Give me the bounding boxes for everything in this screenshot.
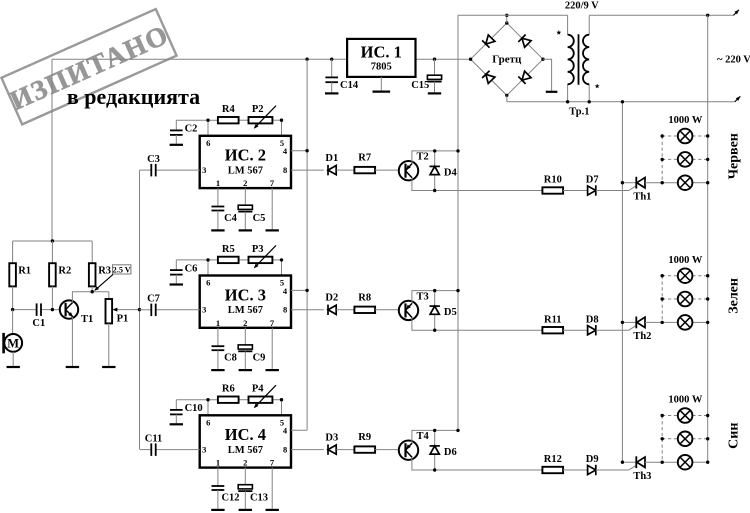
resistor R8 [354,307,375,313]
wire lamp rail vertical [707,15,709,462]
wire pin2 stub block 2 [244,188,246,205]
polarity star secondary [595,84,600,89]
ground microphone [7,366,20,368]
tone decoder U ИС.4 LM 567 [200,415,291,467]
wire collector T3 [412,291,458,303]
svg-text:в редакцията: в редакцията [67,84,200,109]
ground pin7 block 2 [266,229,279,231]
svg-text:T3: T3 [416,291,428,302]
wire mains top line right segment [589,14,733,16]
svg-text:3: 3 [202,165,206,175]
svg-text:ИС. 2: ИС. 2 [225,146,266,165]
wire timing line block 3 [176,259,218,261]
resistor R6 [218,397,239,403]
resistor R10 [542,187,563,193]
wire gate Th1 [596,186,636,191]
svg-text:220/9 V: 220/9 V [565,1,599,12]
svg-text:LM 567: LM 567 [228,305,263,316]
svg-text:6: 6 [206,278,210,288]
svg-text:T4: T4 [416,431,429,442]
wire pin6 stub block 3 [207,260,209,276]
svg-text:R9: R9 [358,432,371,443]
capacitor C12 [212,486,225,509]
wire pin7 stub block 3 [271,328,273,369]
node pin5 junction block 3 [280,258,283,261]
svg-text:2: 2 [243,458,247,468]
svg-text:C9: C9 [253,353,266,364]
lamp L3 channel 1 row 3 [678,175,693,190]
wire bridge bottom to neutral line [506,95,508,101]
node pin4 junction block 3 [305,289,308,292]
svg-text:8: 8 [283,305,287,315]
label 2.5 V callout [93,265,131,293]
svg-text:R5: R5 [222,244,235,255]
svg-text:1000 W: 1000 W [668,395,702,406]
capacitor C5 electrolytic [238,205,252,229]
node lamp rail top [706,14,709,17]
wire pin3 block 4 [140,449,152,451]
node bridge top on mains line [505,14,508,17]
lamp L5 channel 2 row 2 [678,292,693,307]
node dashed rail lamp L9 channel 3 row 3 [661,461,664,464]
svg-text:2: 2 [243,178,247,188]
resistor R1 [12,241,14,263]
capacitor C9 electrolytic [238,345,252,369]
capacitor C6 [170,260,183,284]
svg-text:3: 3 [202,445,206,455]
diode D2 [328,305,336,315]
ground C8 [211,369,224,371]
microphone M [4,310,22,366]
transformer Tr.1 [568,15,590,102]
wire emitter T4 [412,458,543,470]
node neutral rail top [621,100,624,103]
node lamp rail lamp L6 channel 2 row 3 [706,321,709,324]
resistor R2 [51,241,53,263]
node D6 top [433,429,436,432]
node pin6 junction block 3 [206,258,209,261]
svg-text:C4: C4 [224,213,238,224]
wire neutral rail vertical [621,102,623,462]
svg-text:1: 1 [216,458,220,468]
svg-text:R4: R4 [222,104,236,115]
svg-text:C11: C11 [145,433,163,444]
capacitor C4 [212,207,225,230]
wire pin2 stub block 3 [244,328,246,345]
wire pin7 stub block 2 [271,188,273,229]
node dashed rail lamp L7 channel 3 row 1 [661,414,664,417]
svg-text:R6: R6 [222,384,235,395]
svg-text:C5: C5 [253,213,266,224]
node dashed rail lamp L5 channel 2 row 2 [661,297,664,300]
wire base T2 [375,169,399,171]
terminal mains top [734,9,741,16]
svg-text:P1: P1 [117,313,129,324]
node dashed rail lamp L8 channel 3 row 2 [661,437,664,440]
wire dashed right lamp L7 channel 3 row 1 [692,415,707,417]
capacitor C15 electrolytic [434,59,436,75]
wire dashed left lamp L8 channel 3 row 2 [662,438,678,440]
node R1 bottom junction [11,308,14,311]
diode D7 [588,185,596,195]
svg-text:D5: D5 [444,307,457,318]
node wiper junction [138,308,141,311]
capacitor C2 [170,120,183,144]
transistor T1 [60,300,78,318]
svg-text:D7: D7 [586,175,599,186]
wire resistor to diode D8 [563,329,587,331]
svg-text:LM 567: LM 567 [228,165,263,176]
wire +5V vertical rail to pin 4 [306,59,308,430]
wire solid right lamp L3 channel 1 row 3 [692,182,707,184]
wire dashed left lamp L2 channel 1 row 2 [662,158,678,160]
svg-text:Th3: Th3 [633,471,651,482]
svg-text:2: 2 [243,318,247,328]
svg-text:C8: C8 [224,353,237,364]
wire dashed right lamp L8 channel 3 row 2 [692,438,707,440]
wire pin5 stub block 2 [281,120,283,136]
ground C4 [211,229,224,231]
capacitor C1 [36,303,38,316]
resistor R7 [354,167,375,173]
node thyristor rail junction Th2 [621,321,624,324]
node transformer left bottom [566,100,569,103]
wire lamp dashed vertical channel 3 [661,416,663,463]
svg-text:C13: C13 [250,492,268,503]
capacitor C8 [212,346,225,369]
wire dashed left lamp L1 channel 1 row 1 [662,135,678,137]
svg-text:3: 3 [202,305,206,315]
svg-text:Th1: Th1 [633,191,651,202]
wire left supply drop [51,59,53,241]
transistor T4 [399,441,418,460]
wire ac rail vertical [457,15,459,430]
svg-text:ИС. 1: ИС. 1 [361,43,402,62]
wire pin1 stub block 4 [217,468,219,486]
thyristor Th1 [622,177,677,189]
lamp L7 channel 3 row 1 [678,408,693,423]
svg-text:C6: C6 [185,263,198,274]
wire gate Th2 [596,325,636,330]
svg-text:ИС. 4: ИС. 4 [225,425,266,444]
node thyristor rail junction Th1 [621,181,624,184]
thyristor Th3 [622,456,677,468]
svg-text:Тр.1: Тр.1 [569,106,589,117]
node lamp rail lamp L1 channel 1 row 1 [706,134,709,137]
wire collector T2 [412,151,458,163]
svg-text:C10: C10 [185,403,203,414]
svg-text:6: 6 [206,138,210,148]
wire base line [13,309,37,311]
potentiometer P1 [106,292,113,366]
wire T1 emitter [71,317,73,366]
capacitor C7 [150,304,152,317]
wire pin2 stub block 4 [244,468,246,485]
node dashed rail lamp L4 channel 2 row 1 [661,274,664,277]
wire pin8 output block 2 [291,169,324,171]
node collector rail junction block 4 [456,429,459,432]
lamp L2 channel 1 row 2 [678,152,693,167]
svg-text:C1: C1 [32,318,45,329]
node collector rail junction block 3 [456,289,459,292]
wire pin1 stub block 2 [217,188,219,206]
node pin5 junction block 2 [280,119,283,122]
wire pin5 stub block 4 [281,400,283,416]
wire T1 collector [72,292,108,303]
wire pin4 block 2 [291,150,307,152]
svg-text:1000 W: 1000 W [668,115,702,126]
svg-text:R1: R1 [18,266,31,277]
svg-text:M: M [7,336,19,350]
svg-text:ИС. 3: ИС. 3 [225,285,266,304]
tone decoder U ИС.3 LM 567 [200,276,291,328]
node lamp rail lamp L7 channel 3 row 1 [706,414,709,417]
wire bias rail [13,240,93,242]
node dashed rail lamp L1 channel 1 row 1 [661,134,664,137]
resistor R9 [354,446,375,452]
ground T1 [66,366,79,368]
wire diode to resistor R9 [336,449,354,451]
wire pin3 block 2 [140,169,152,171]
node bias rail junction [51,239,54,242]
svg-text:D4: D4 [444,168,458,179]
transistor T3 [399,301,418,320]
ground C5 [239,229,252,231]
ground C15 [428,92,441,94]
ground C10 [170,423,183,425]
wire pin7 stub block 4 [271,468,273,509]
ground C2 [170,144,183,146]
resistor R12 [542,467,563,473]
svg-text:1: 1 [216,318,220,328]
svg-text:C12: C12 [221,492,239,503]
svg-text:D1: D1 [325,153,338,164]
node lamp rail lamp L8 channel 3 row 2 [706,437,709,440]
svg-text:D2: D2 [325,293,338,304]
svg-text:Син: Син [727,423,742,449]
wire gate Th3 [596,465,636,470]
svg-text:~ 220 V: ~ 220 V [717,55,750,66]
svg-text:P2: P2 [252,104,264,115]
svg-text:R8: R8 [358,292,371,303]
node D5 bottom [433,329,436,332]
svg-text:T2: T2 [416,152,428,163]
wire timing line block 2 [176,119,218,121]
node lamp rail lamp L9 channel 3 row 3 [706,461,709,464]
node transformer right bottom [588,100,591,103]
wire pin6 stub block 4 [207,400,209,416]
wire +5V rail horizontal [52,58,347,60]
wire pin8 output block 4 [291,449,324,451]
lamp L9 channel 3 row 3 [678,455,693,470]
svg-text:P3: P3 [252,244,264,255]
diode D4 flyback [430,151,440,191]
ground bridge [546,91,558,93]
wire dashed right lamp L4 channel 2 row 1 [692,275,707,277]
ground pin7 block 4 [266,509,279,511]
wire emitter T3 [412,318,543,330]
svg-text:Зелен: Зелен [727,278,742,314]
svg-text:R2: R2 [58,266,71,277]
diode D6 flyback [430,430,440,470]
wire dashed left lamp L7 channel 3 row 1 [662,415,678,417]
ground C13 [239,509,252,511]
wire pin4 block 3 [291,289,307,291]
wire dashed left lamp L4 channel 2 row 1 [662,275,678,277]
terminal mains bottom [735,95,742,102]
node dashed rail lamp L6 channel 2 row 3 [661,321,664,324]
node D5 top [433,289,436,292]
wire IC1 input to bridge [416,58,472,60]
resistor R4 [218,117,239,123]
svg-text:C15: C15 [411,80,429,91]
polarity star primary [556,30,561,35]
node collector rail junction block 2 [456,149,459,152]
wire dashed right lamp L2 channel 1 row 2 [692,158,707,160]
wire P1 wiper [112,308,139,312]
potentiometer P4 [249,385,277,409]
bridge rectifier Гретц [469,21,545,97]
wire base T4 [375,449,399,451]
svg-text:R12: R12 [544,454,562,465]
svg-text:P4: P4 [252,384,264,395]
svg-text:T1: T1 [81,314,93,325]
svg-text:R3: R3 [98,266,111,277]
resistor R5 [218,257,239,263]
node D4 bottom [433,189,436,192]
node lamp rail lamp L5 channel 2 row 2 [706,297,709,300]
wire diode to resistor R7 [336,169,354,171]
node +5V rail to pin4 rail [305,58,308,61]
capacitor C13 electrolytic [238,485,252,509]
wire diode to resistor R8 [336,309,354,311]
tone decoder U ИС.2 LM 567 [200,136,291,188]
node R3 collector junction [91,290,94,293]
svg-text:2.5 V: 2.5 V [113,265,131,274]
wire pin8 output block 3 [291,309,324,311]
wire resistor to diode D9 [563,469,587,471]
svg-text:D6: D6 [444,447,457,458]
ground C9 [239,369,252,371]
wire bridge top to mains line [506,15,508,23]
node dashed rail lamp L3 channel 1 row 3 [661,181,664,184]
wire dashed right lamp L1 channel 1 row 1 [692,135,707,137]
capacitor C3 [150,164,152,177]
diode D5 flyback [430,291,440,331]
wire timing line block 4 [176,399,218,401]
ground C14 [325,92,338,94]
wire pin4 block 4 [291,429,307,431]
resistor R11 [542,327,563,333]
node pin4 junction block 2 [305,149,308,152]
svg-text:C3: C3 [147,154,160,165]
wire dashed left lamp L5 channel 2 row 2 [662,298,678,300]
svg-text:8: 8 [283,165,287,175]
node pin5 junction block 4 [280,398,283,401]
svg-text:6: 6 [206,417,210,427]
wire solid right lamp L9 channel 3 row 3 [692,461,707,463]
potentiometer P2 [249,106,277,130]
svg-text:1: 1 [216,178,220,188]
wire pin3 block 3 [140,309,152,311]
wire pin5 stub block 3 [281,260,283,276]
node D4 top [433,149,436,152]
svg-text:R11: R11 [544,314,562,325]
ground P1 [102,366,115,368]
wire collector T4 [412,430,458,442]
diode D3 [328,444,336,454]
svg-text:R7: R7 [358,153,371,164]
node pin6 junction block 2 [206,119,209,122]
wire pin6 stub block 2 [207,120,209,136]
svg-text:C2: C2 [185,124,198,135]
node R2 base junction [51,308,54,311]
wire mains top line left segment [458,14,568,16]
wire pin1 stub block 3 [217,328,219,346]
node thyristor rail junction Th3 [621,461,624,464]
transistor T2 [399,161,418,180]
svg-text:7805: 7805 [371,62,392,73]
wire dashed right lamp L5 channel 2 row 2 [692,298,707,300]
ground IC1 [373,90,391,92]
diode D1 [328,165,336,175]
stamp ИЗПИТАНО [1,9,177,125]
wire resistor to diode D7 [563,190,587,192]
thyristor Th2 [622,317,677,329]
wire solid right lamp L6 channel 2 row 3 [692,321,707,323]
svg-text:C7: C7 [147,294,160,305]
svg-text:Гретц: Гретц [492,54,522,66]
svg-text:Червен: Червен [727,133,742,179]
node C15 junction [433,58,436,61]
svg-text:1000 W: 1000 W [668,255,702,266]
svg-text:C14: C14 [340,80,359,91]
node C14 junction [330,58,333,61]
wire lamp dashed vertical channel 2 [661,276,663,323]
wire input signal rail [139,170,141,449]
ground C6 [170,283,183,285]
capacitor C10 [170,400,183,424]
potentiometer P3 [249,245,277,269]
node dashed rail lamp L2 channel 1 row 2 [661,158,664,161]
capacitor C11 [150,443,152,456]
wire bridge right to ground [543,59,552,91]
svg-text:D8: D8 [586,314,599,325]
ground pin7 block 3 [266,369,279,371]
wire base T3 [375,309,399,311]
node lamp rail lamp L2 channel 1 row 2 [706,158,709,161]
voltage regulator U1 ИС.1 7805 [347,39,415,77]
lamp L6 channel 2 row 3 [678,315,693,330]
resistor R3 [91,241,93,263]
wire emitter T2 [412,178,543,190]
node lamp rail lamp L3 channel 1 row 3 [706,181,709,184]
svg-text:Th2: Th2 [633,331,651,342]
ground C12 [211,509,224,511]
capacitor C14 [331,59,333,77]
node pin6 junction block 4 [206,398,209,401]
diode D9 [588,465,596,475]
lamp L4 channel 2 row 1 [678,268,693,283]
svg-text:D3: D3 [325,432,338,443]
svg-text:D9: D9 [586,454,599,465]
svg-text:8: 8 [283,445,287,455]
wire IC1 ground stub [380,77,382,91]
node lamp rail lamp L4 channel 2 row 1 [706,274,709,277]
diode D8 [588,325,596,335]
lamp L8 channel 3 row 2 [678,432,693,447]
lamp L1 channel 1 row 1 [678,129,693,144]
